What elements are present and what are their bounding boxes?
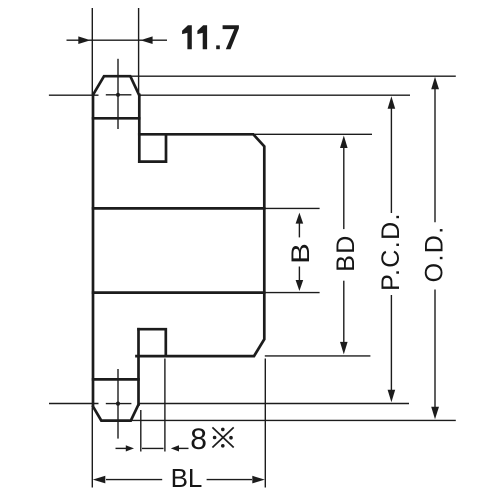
svg-text:BL: BL	[171, 463, 203, 493]
svg-text:P.C.D.: P.C.D.	[377, 212, 405, 291]
svg-text:O.D.: O.D.	[420, 225, 448, 282]
svg-text:B: B	[286, 243, 314, 264]
svg-text:8: 8	[190, 423, 207, 456]
svg-text:BD: BD	[332, 234, 360, 272]
